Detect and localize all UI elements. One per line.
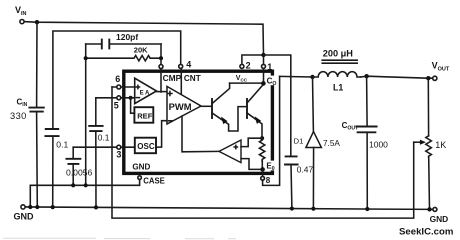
svg-text:3: 3	[116, 150, 121, 160]
wire switch node E0 to inductor	[280, 75, 313, 78]
svg-text:2: 2	[246, 61, 251, 71]
capacitor 0.1 (second, pin5 to gnd)	[89, 98, 110, 208]
pin 6	[112, 74, 135, 89]
pin CO / pin 1	[262, 57, 279, 87]
node Vout terminal	[432, 60, 450, 80]
wire EA output to PWM	[157, 91, 168, 93]
svg-text:CASE: CASE	[143, 176, 165, 185]
junction CO internal node	[261, 81, 266, 86]
svg-text:8: 8	[266, 176, 271, 185]
svg-text:5: 5	[114, 100, 119, 110]
junction Cout to gnd	[365, 207, 369, 211]
ground terminal right	[430, 207, 449, 224]
pin CASE	[138, 176, 165, 186]
junction 0.1 pin5 to gnd	[94, 205, 98, 209]
resistor current sense internal	[259, 138, 264, 161]
capacitor 0.0056 (pin3 to case line)	[66, 147, 93, 185]
junction Vin	[35, 20, 39, 24]
junction 0.1 to gnd	[51, 205, 55, 209]
svg-text:REF: REF	[137, 112, 153, 121]
capacitor 0.1 (first)	[45, 129, 68, 207]
wire inductor to Vout	[360, 76, 432, 78]
pin 8	[261, 76, 280, 185]
pin VCC / pin 2	[236, 55, 264, 83]
junction 1K to gnd	[427, 207, 431, 211]
junction comp leg on case line	[84, 183, 88, 187]
resistor 1K potentiometer	[414, 78, 447, 209]
junction D1 node	[310, 75, 314, 79]
junction EA minus to REF	[129, 96, 133, 100]
svg-text:VOUT: VOUT	[432, 60, 450, 72]
svg-text:GND: GND	[14, 211, 35, 221]
svg-text:7.5A: 7.5A	[323, 139, 340, 148]
ground rail bottom	[25, 207, 433, 209]
OSC block	[135, 121, 167, 154]
transistor Q2	[247, 85, 263, 139]
junction Cin to gnd	[35, 205, 39, 209]
capacitor 120pf	[86, 32, 161, 49]
svg-text:1K: 1K	[435, 140, 446, 150]
internal Vcc rail to CO node	[230, 82, 264, 84]
pin 5	[96, 96, 135, 111]
wire PWM output to Q1 base	[201, 105, 211, 107]
svg-text:L1: L1	[333, 83, 343, 93]
transistor Q1	[212, 83, 246, 131]
junction D1 to gnd	[311, 207, 315, 211]
svg-text:VCC: VCC	[236, 75, 248, 82]
IC case outline U1	[124, 71, 273, 173]
wire: CASE/ground return line	[30, 180, 139, 208]
svg-text:20K: 20K	[134, 45, 148, 54]
pin CMP	[159, 65, 182, 92]
svg-text:1000: 1000	[369, 140, 388, 150]
wire: comp network left leg down to case line	[85, 44, 87, 185]
capacitor COUT 1000	[342, 76, 389, 209]
wire: comp network right leg to CMP pin	[160, 44, 162, 65]
junction pin1/2/bypass	[261, 53, 265, 57]
junction Cout	[364, 74, 368, 78]
svg-text:CIN: CIN	[17, 98, 28, 109]
capacitor 0.47 input bypass	[264, 55, 314, 209]
junction 0.47 to gnd	[290, 206, 294, 210]
svg-text:CMP: CMP	[163, 73, 182, 83]
node Vin: input terminal	[15, 5, 27, 24]
node E0	[260, 161, 278, 172]
svg-text:1: 1	[267, 62, 272, 72]
svg-text:0.0056: 0.0056	[66, 168, 93, 178]
svg-text:PWM: PWM	[169, 101, 192, 112]
diode D1 7.5A	[294, 77, 341, 209]
svg-text:CNT: CNT	[184, 74, 201, 83]
svg-text:VIN: VIN	[15, 5, 27, 17]
REF block	[131, 98, 154, 123]
svg-text:200 μH: 200 μH	[323, 49, 354, 59]
junction case-line to gnd	[28, 205, 32, 209]
wire sense resistor to E0 node	[261, 161, 263, 169]
op-amp current limit comparator	[219, 140, 241, 163]
svg-text:0.47: 0.47	[297, 165, 314, 175]
wire: pin6 feedback drop	[112, 87, 414, 218]
svg-text:0.1: 0.1	[98, 132, 110, 142]
junction 20K left	[84, 56, 88, 60]
svg-text:6: 6	[115, 74, 120, 84]
wire CL minus input to E0 node	[241, 159, 263, 170]
svg-text:4: 4	[186, 60, 191, 70]
pin CNT / pin 4	[179, 60, 201, 95]
svg-text:OSC: OSC	[137, 142, 155, 151]
scan artifact marks	[3, 237, 236, 240]
wire CL plus input to sense top	[241, 138, 262, 146]
svg-text:120pf: 120pf	[116, 32, 138, 42]
pin 3	[73, 145, 135, 159]
op-amp PWM comparator	[167, 86, 201, 124]
svg-text:D1: D1	[294, 137, 304, 146]
svg-text:GND: GND	[430, 214, 449, 224]
wire CL output to CNT line	[182, 116, 219, 152]
junction 20K right	[159, 56, 163, 60]
junction 1K tap	[426, 76, 430, 80]
junction 0.0056 on case line	[71, 183, 75, 187]
svg-text:0.1: 0.1	[56, 139, 68, 149]
svg-text:330: 330	[10, 111, 27, 121]
capacitor CIN 330	[10, 98, 44, 207]
junction emitter sense top	[260, 136, 264, 140]
svg-text:E A: E A	[140, 91, 150, 97]
wire: Vin top rail	[24, 22, 263, 55]
inductor L1 200uH	[313, 49, 361, 93]
op-amp EA error amplifier	[135, 78, 157, 103]
svg-text:COUT: COUT	[342, 121, 360, 132]
ground terminal left	[14, 205, 35, 221]
resistor 20K	[86, 45, 161, 61]
svg-text:GND: GND	[132, 163, 150, 172]
wire: inner rail (CNT bypass) from 0.1 cap up and right to pin4	[53, 31, 181, 129]
wire: left Vin rail down to Cin	[36, 22, 38, 107]
svg-text:SeekIC.com: SeekIC.com	[399, 226, 453, 237]
